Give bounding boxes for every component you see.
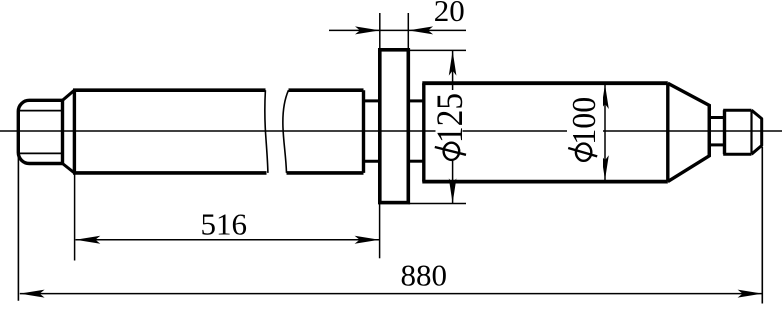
neck before right end — [709, 118, 724, 145]
chamfer between bolt head and main cylinder — [63, 90, 75, 173]
break line right — [283, 90, 289, 173]
flange (phi125 disc, 20 wide) — [380, 50, 409, 203]
svg-text:100: 100 — [566, 97, 603, 145]
dimension phi100 (cylinder diameter) — [566, 84, 608, 180]
main cylinder left section — [73, 90, 267, 173]
svg-text:125: 125 — [429, 93, 471, 143]
svg-text:880: 880 — [400, 258, 447, 293]
dimension 20 (flange width, top) — [329, 0, 466, 50]
break line left — [265, 90, 268, 173]
dimension 516 (bottom) — [75, 175, 380, 261]
neck right of flange — [408, 101, 424, 161]
right shaft end: threaded stud — [723, 110, 762, 154]
neck left of flange — [364, 101, 380, 161]
main cylinder right section (before flange) — [287, 90, 364, 173]
left shaft end: bolt head with rounded corners — [18, 100, 62, 163]
phi100 cylinder — [422, 83, 668, 181]
dimension 880 (overall length, bottom) — [18, 147, 762, 304]
svg-text:516: 516 — [201, 207, 248, 242]
cone (tapered section) — [668, 83, 710, 181]
dimension phi125 (flange diameter) — [408, 50, 470, 203]
centerline (shaft axis) — [0, 130, 782, 132]
svg-text:20: 20 — [434, 0, 465, 28]
